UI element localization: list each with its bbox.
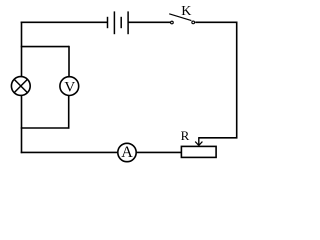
- svg-text:A: A: [121, 144, 133, 161]
- wire: bottom rail left (corner to ammeter): [21, 151, 118, 153]
- wire: voltmeter top branch horizontal: [21, 46, 69, 48]
- switch K lever (open, hinged at right): [169, 14, 191, 21]
- lamp cross diagonal 2: [14, 79, 27, 92]
- battery (two cells) short plate 1 (negative): [107, 17, 109, 28]
- wire: horizontal to rheostat slider: [199, 137, 238, 139]
- voltmeter V circle: [60, 77, 79, 96]
- rheostat slider arrowhead left barb: [195, 142, 199, 146]
- wire: left vertical lower (lamp to bottom corner): [21, 96, 23, 154]
- rheostat slider arrowhead right barb: [199, 142, 203, 146]
- lamp cross diagonal 1: [14, 79, 27, 92]
- battery short plate 2 (negative): [120, 17, 122, 28]
- battery tall plate 1 (positive): [113, 11, 115, 34]
- svg-text:V: V: [64, 79, 75, 95]
- switch K right contact circle: [192, 21, 195, 24]
- battery tall plate 2 (positive): [127, 11, 129, 34]
- wire: voltmeter bottom branch horizontal (joins left wire): [21, 127, 70, 129]
- wire: voltmeter bottom branch vertical: [68, 96, 70, 129]
- wire: bottom rail right (ammeter to rheostat): [137, 151, 182, 153]
- ammeter A circle: [118, 143, 136, 161]
- switch K left contact circle: [171, 21, 174, 24]
- wire: left vertical upper (corner to lamp): [21, 22, 23, 77]
- lamp circle: [11, 77, 30, 96]
- wire: battery to switch: [128, 21, 170, 23]
- wire: top-left horizontal from left corner to battery: [21, 21, 108, 23]
- wire: right vertical: [236, 22, 238, 138]
- wire: switch to top-right corner: [195, 21, 237, 23]
- rheostat R body (resistor box): [181, 146, 216, 157]
- svg-text:R: R: [181, 128, 190, 143]
- svg-text:K: K: [181, 4, 191, 19]
- rheostat slider arrow shaft: [198, 137, 200, 145]
- wire: voltmeter top branch vertical: [68, 46, 70, 77]
